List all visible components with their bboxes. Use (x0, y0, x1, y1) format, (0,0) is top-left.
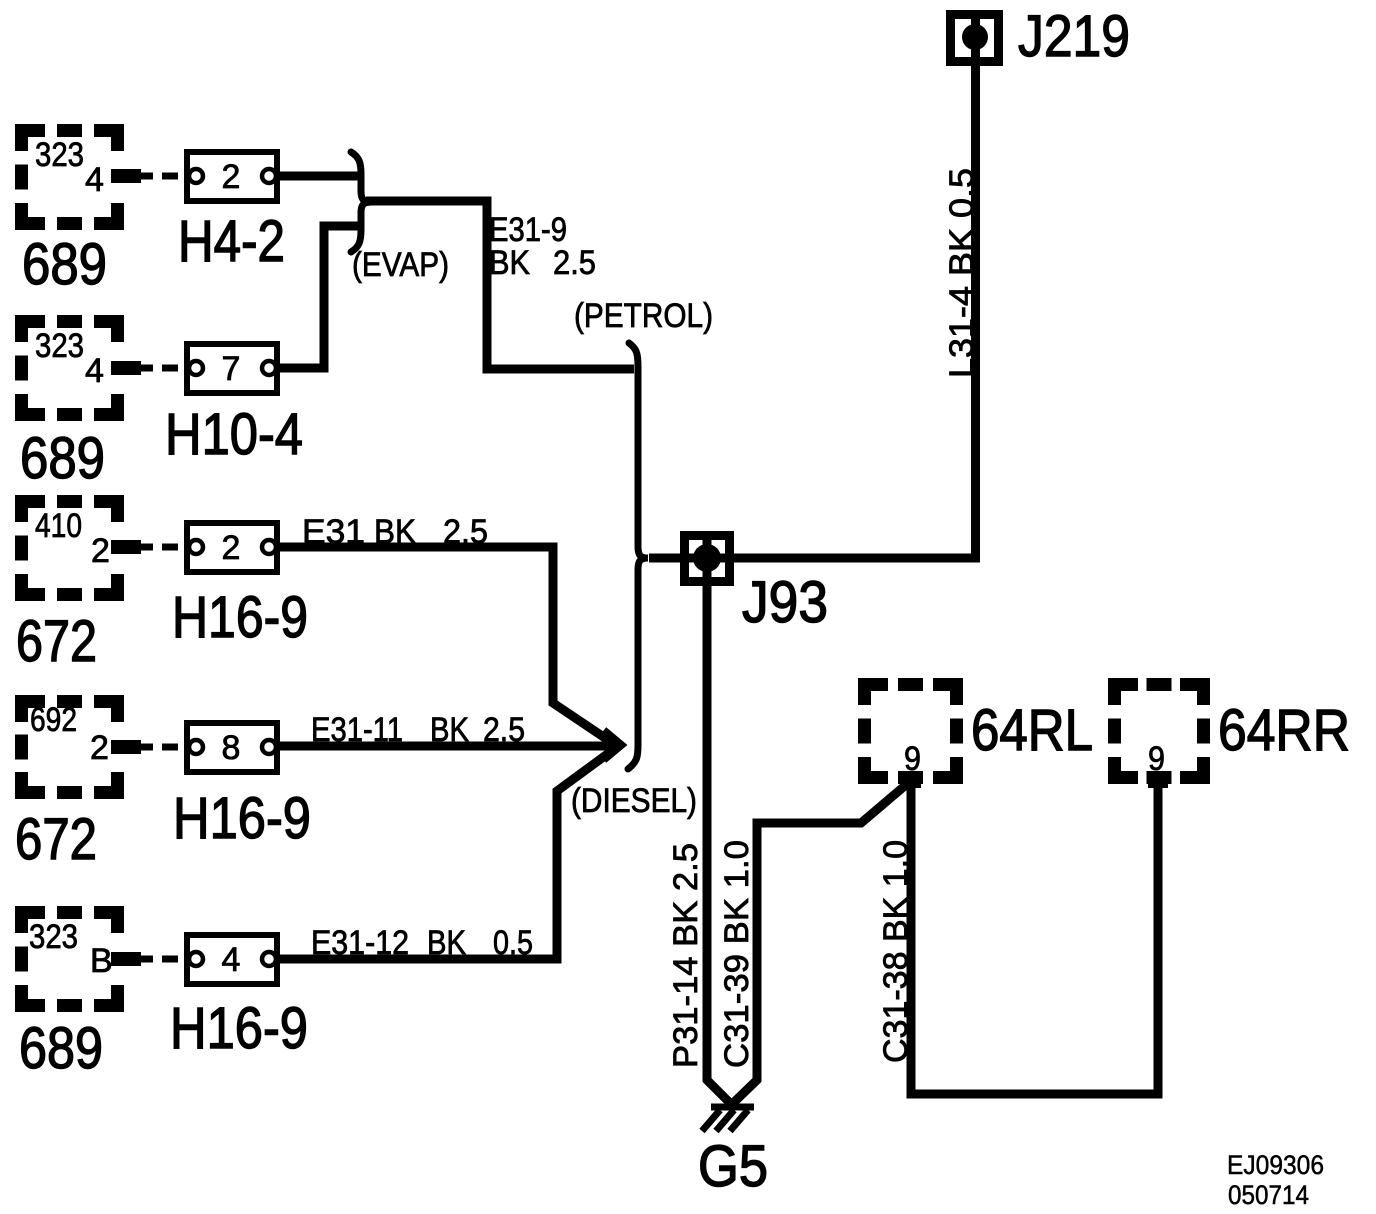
svg-text:2: 2 (222, 158, 241, 196)
dashed wire row4 (112, 744, 190, 751)
svg-text:410: 410 (35, 507, 82, 545)
PETROL/DIESEL tall brace } (628, 343, 648, 769)
svg-text:2.5: 2.5 (553, 244, 596, 282)
svg-text:B: B (90, 942, 113, 980)
svg-text:E31-11: E31-11 (311, 711, 403, 749)
svg-text:H16-9: H16-9 (172, 585, 308, 650)
svg-text:672: 672 (15, 807, 97, 872)
svg-text:BK: BK (427, 924, 466, 962)
dashed wire row2 (112, 365, 190, 372)
svg-text:0.5: 0.5 (493, 924, 533, 962)
svg-text:(EVAP): (EVAP) (352, 246, 449, 284)
ground G5 symbol (702, 1107, 754, 1131)
svg-text:692: 692 (30, 701, 77, 739)
svg-text:4: 4 (85, 161, 104, 199)
svg-text:323: 323 (29, 918, 78, 956)
svg-text:EJ09306: EJ09306 (1227, 1150, 1324, 1180)
svg-text:672: 672 (16, 609, 97, 674)
svg-text:E31-12: E31-12 (311, 924, 409, 962)
wire H4-2 to EVAP brace (280, 172, 358, 181)
connector 689 (H10-4 side) dashed box (15, 315, 141, 421)
svg-text:J93: J93 (742, 570, 828, 635)
wire H10-4 to EVAP brace (280, 226, 358, 368)
svg-text:9: 9 (1148, 740, 1165, 778)
svg-text:2: 2 (222, 529, 241, 567)
svg-text:2: 2 (90, 729, 109, 767)
svg-text:C31-38 BK 1.0: C31-38 BK 1.0 (877, 840, 915, 1063)
svg-text:7: 7 (222, 350, 241, 388)
junction J93 square (685, 536, 730, 582)
svg-text:323: 323 (35, 136, 84, 174)
svg-text:H16-9: H16-9 (170, 996, 308, 1061)
dashed wire row1 (112, 173, 190, 180)
svg-text:P31-14 BK 2.5: P31-14 BK 2.5 (667, 843, 705, 1068)
connector 689 (H4-2 side) dashed box (15, 124, 141, 230)
svg-text:2.5: 2.5 (443, 513, 488, 551)
svg-text:BK: BK (489, 244, 530, 282)
svg-text:J219: J219 (1018, 4, 1130, 69)
wire E31 (H16-9 row3 to diesel merge) (280, 547, 617, 746)
wire C31-38 (64RL to 64RR) (911, 782, 1158, 1094)
svg-text:689: 689 (19, 1016, 103, 1081)
svg-text:323: 323 (35, 327, 84, 365)
junction J93 dot (693, 544, 721, 572)
connector H16-9 row4 pin box (187, 723, 277, 772)
svg-text:(PETROL): (PETROL) (574, 297, 713, 335)
dashed wire row3 (112, 544, 190, 551)
svg-text:9: 9 (904, 740, 921, 778)
connector H16-9 row5 pin box (187, 935, 277, 984)
svg-text:689: 689 (22, 232, 107, 297)
wire E31-9 (EVAP output to PETROL brace) (366, 201, 634, 369)
connector H16-9 row3 pin box (187, 523, 277, 572)
svg-text:BK: BK (374, 513, 416, 551)
EVAP brace } (351, 152, 372, 252)
svg-text:689: 689 (20, 426, 105, 491)
svg-text:2: 2 (91, 532, 110, 570)
svg-text:4: 4 (222, 941, 241, 979)
svg-text:H16-9: H16-9 (173, 786, 311, 851)
svg-text:BK: BK (430, 711, 469, 749)
connector 64RR dashed box (1108, 678, 1210, 788)
junction J219 square (951, 15, 999, 62)
svg-text:C31-39 BK 1.0: C31-39 BK 1.0 (718, 840, 756, 1068)
svg-text:2.5: 2.5 (483, 711, 525, 749)
connector 64RL dashed box (858, 678, 963, 788)
dashed wire row5 (112, 956, 190, 963)
svg-text:(DIESEL): (DIESEL) (571, 782, 697, 820)
connector 689 (row5) dashed box (15, 906, 141, 1012)
connector 672 (row3) dashed box (15, 495, 141, 601)
svg-text:4: 4 (85, 352, 104, 390)
wire C31-39 (64RL to ground funnel) (728, 784, 907, 1108)
wire brace to J93 to corner to J219 (649, 13, 976, 558)
svg-text:L31-4 BK 0.5: L31-4 BK 0.5 (943, 168, 981, 378)
svg-text:64RL: 64RL (971, 698, 1093, 763)
svg-text:G5: G5 (698, 1134, 768, 1199)
connector H10-4 pin box (187, 344, 277, 393)
svg-text:H10-4: H10-4 (165, 402, 303, 467)
connector H4-2 pin box (187, 152, 277, 201)
connector 672 (row4) dashed box (15, 695, 141, 799)
junction J219 dot (962, 24, 988, 50)
svg-text:8: 8 (222, 729, 241, 767)
svg-text:64RR: 64RR (1218, 698, 1350, 763)
wire J93 down (P31-14) to ground funnel (707, 533, 735, 1108)
svg-text:E31: E31 (302, 513, 365, 551)
diesel merge arrowhead (604, 730, 622, 760)
wire E31-12 (H16-9 row5 to diesel merge) (280, 747, 617, 959)
wire E31-11 (H16-9 row4 to diesel merge) (280, 742, 621, 751)
svg-text:H4-2: H4-2 (178, 209, 285, 274)
svg-text:050714: 050714 (1228, 1180, 1309, 1210)
